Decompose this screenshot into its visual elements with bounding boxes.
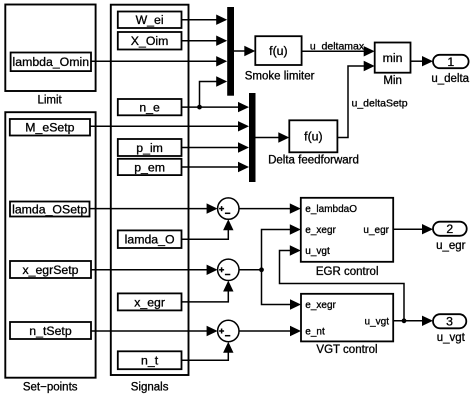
- label VGT control: [316, 344, 377, 356]
- subsystem block EGR control: [301, 198, 393, 262]
- label EGR control: [316, 266, 379, 278]
- wire x_egr to Sum2: [182, 281, 234, 302]
- wire X_Oim to Mux1: [182, 36, 228, 46]
- source block p_em: [118, 159, 182, 175]
- signal label u_deltamax: [310, 41, 365, 53]
- wire n_tSetp to Sum3: [91, 326, 218, 336]
- label u_egr: [436, 240, 466, 252]
- source block x_egrSetp: [10, 261, 91, 278]
- svg-text:VGT control: VGT control: [316, 344, 377, 356]
- label u_delta: [431, 73, 469, 85]
- sum junction Sum1: [218, 198, 239, 219]
- wire lamda_OSetp to Sum1: [90, 203, 218, 213]
- svg-text:e_nt: e_nt: [305, 327, 325, 338]
- svg-text:u_vgt: u_vgt: [305, 246, 330, 257]
- wire Delta feedforward to Min: [337, 61, 374, 138]
- svg-text:X_Oim: X_Oim: [131, 34, 169, 48]
- label Limit: [37, 94, 62, 106]
- wire p_im to Mux2: [182, 142, 250, 152]
- svg-text:u_deltaSetp: u_deltaSetp: [352, 98, 408, 110]
- junction dot u_vgt: [402, 318, 407, 323]
- wire Smoke limiter to Min: [302, 46, 375, 56]
- wire EGR u_egr to outport 2: [393, 224, 433, 234]
- svg-text:Delta feedforward: Delta feedforward: [268, 155, 359, 167]
- svg-text:n_e: n_e: [139, 101, 160, 115]
- wire n_e to Mux2: [182, 102, 250, 112]
- source block n_t: [118, 351, 182, 369]
- source block lamda_OSetp: [10, 202, 90, 217]
- svg-text:u_vgt: u_vgt: [437, 332, 466, 344]
- svg-text:f(u): f(u): [304, 130, 322, 144]
- svg-text:e_xegr: e_xegr: [305, 300, 336, 311]
- outport 2: [433, 222, 467, 237]
- wire Sum2 to junction: [239, 269, 262, 271]
- source block W_ei: [118, 12, 182, 29]
- label Smoke limiter: [245, 71, 315, 83]
- svg-text:lamda_O: lamda_O: [125, 233, 175, 247]
- source block lamda_O: [118, 230, 182, 248]
- wire p_em to Mux2: [182, 162, 250, 172]
- outport 3: [433, 314, 466, 329]
- svg-text:Set−points: Set−points: [23, 382, 78, 394]
- block Delta feedforward f(u): [289, 120, 337, 152]
- svg-text:2: 2: [446, 222, 453, 236]
- svg-text:u_delta: u_delta: [431, 73, 469, 85]
- wire Mux2 to Delta feedforward: [256, 132, 290, 142]
- wire VGT u_vgt to outport 3: [393, 316, 433, 326]
- junction dot e_xegr: [259, 267, 264, 272]
- label Delta feedforward: [268, 155, 359, 167]
- svg-text:n_tSetp: n_tSetp: [29, 324, 72, 338]
- wire M_eSetp to Mux2: [90, 121, 249, 131]
- wire x_egrSetp to Sum2: [91, 265, 218, 275]
- label Min: [383, 75, 402, 87]
- mux Mux2: [249, 93, 256, 182]
- source block n_tSetp: [10, 322, 91, 339]
- wire W_ei to Mux1: [182, 15, 228, 25]
- wire n_t to Sum3: [182, 342, 234, 361]
- sum junction Sum2: [218, 259, 239, 280]
- svg-text:EGR control: EGR control: [316, 266, 379, 278]
- svg-text:u_deltamax: u_deltamax: [310, 41, 365, 53]
- block Min: [375, 43, 411, 73]
- source block n_e: [118, 99, 182, 115]
- svg-text:Signals: Signals: [131, 382, 169, 394]
- sum junction Sum3: [218, 320, 239, 341]
- svg-text:min: min: [383, 51, 403, 65]
- svg-text:Limit: Limit: [37, 94, 62, 106]
- wire n_e branch to Mux1: [200, 76, 228, 107]
- source block X_Oim: [118, 32, 182, 50]
- svg-text:M_eSetp: M_eSetp: [25, 121, 74, 135]
- svg-text:e_xegr: e_xegr: [305, 225, 336, 236]
- svg-text:p_im: p_im: [136, 141, 163, 155]
- svg-text:u_egr: u_egr: [436, 240, 466, 252]
- source block M_eSetp: [10, 119, 90, 136]
- signal label u_deltaSetp: [352, 98, 408, 110]
- wire Sum1 to EGR e_lambdaO: [239, 203, 301, 213]
- svg-text:x_egrSetp: x_egrSetp: [22, 263, 78, 277]
- svg-text:f(u): f(u): [269, 44, 287, 58]
- outport 1: [433, 55, 469, 69]
- wire junction to VGT e_xegr: [262, 270, 302, 310]
- svg-text:Min: Min: [383, 75, 402, 87]
- wire lamda_O to Sum1: [182, 219, 234, 239]
- svg-text:3: 3: [446, 315, 453, 329]
- svg-text:u_egr: u_egr: [363, 225, 389, 236]
- wire Sum3 to VGT e_nt: [239, 326, 301, 336]
- subsystem Limit: [5, 5, 95, 92]
- wire Mux1 to Smoke limiter: [234, 46, 255, 56]
- svg-text:e_lambdaO: e_lambdaO: [305, 204, 357, 215]
- wire u_vgt feedback to EGR: [280, 245, 405, 320]
- svg-text:1: 1: [447, 55, 454, 69]
- svg-text:x_egr: x_egr: [134, 295, 165, 309]
- source block x_egr: [118, 293, 182, 310]
- block Smoke limiter f(u): [255, 36, 301, 65]
- svg-text:u_vgt: u_vgt: [365, 316, 390, 327]
- label Set-points: [23, 382, 78, 394]
- wire junction to EGR e_xegr: [262, 224, 301, 269]
- svg-text:lamda_OSetp: lamda_OSetp: [12, 202, 87, 216]
- svg-text:lambda_Omin: lambda_Omin: [13, 55, 90, 69]
- label Signals: [131, 382, 169, 394]
- svg-text:n_t: n_t: [141, 354, 159, 368]
- subsystem block VGT control: [301, 294, 393, 342]
- mux Mux1: [227, 7, 234, 96]
- subsystem Set-points: [5, 112, 95, 378]
- svg-text:W_ei: W_ei: [136, 13, 164, 27]
- source block p_im: [118, 139, 182, 156]
- svg-text:Smoke limiter: Smoke limiter: [245, 71, 315, 83]
- wire Min to outport 1: [411, 56, 434, 66]
- subsystem Signals: [111, 5, 189, 375]
- wire lambda_Omin to Mux1: [91, 56, 227, 66]
- source block lambda_Omin: [11, 53, 91, 72]
- svg-text:p_em: p_em: [134, 160, 165, 174]
- junction dot n_e: [197, 105, 202, 110]
- label u_vgt: [437, 332, 466, 344]
